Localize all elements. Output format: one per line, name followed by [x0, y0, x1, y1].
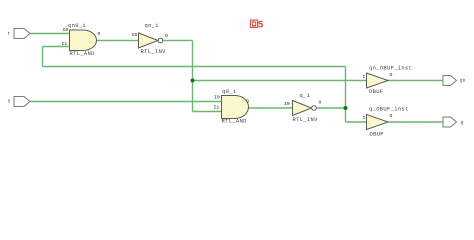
svg-text:O: O [390, 72, 393, 78]
svg-text:I0: I0 [214, 95, 220, 101]
svg-text:OBUF: OBUF [369, 88, 383, 95]
svg-text:O: O [390, 113, 393, 119]
svg-text:O: O [246, 99, 249, 105]
svg-text:I0: I0 [63, 27, 69, 33]
svg-text:I: I [363, 115, 366, 121]
svg-text:I1: I1 [214, 105, 220, 111]
svg-text:RTL_AND: RTL_AND [222, 118, 248, 125]
svg-text:I0: I0 [132, 32, 138, 38]
svg-text:r: r [8, 31, 11, 37]
svg-text:q_OBUF_inst: q_OBUF_inst [369, 106, 409, 113]
svg-text:qn_OBUF_inst: qn_OBUF_inst [369, 65, 412, 72]
svg-text:I: I [363, 74, 366, 80]
svg-text:s: s [8, 99, 11, 105]
svg-text:RTL_AND: RTL_AND [70, 50, 96, 57]
svg-text:q_i: q_i [300, 92, 311, 99]
svg-text:q0_i: q0_i [222, 88, 237, 95]
svg-text:qn0_i: qn0_i [68, 22, 86, 29]
svg-text:5: 5 [258, 21, 264, 32]
svg-text:O: O [319, 100, 322, 106]
svg-text:O: O [165, 33, 168, 39]
svg-text:RTL_INV: RTL_INV [141, 48, 167, 55]
svg-text:I0: I0 [284, 101, 290, 107]
svg-text:OBUF: OBUF [370, 131, 384, 138]
svg-text:O: O [98, 31, 101, 37]
svg-text:I1: I1 [62, 41, 68, 47]
svg-text:RTL_INV: RTL_INV [293, 116, 319, 123]
svg-text:qn: qn [460, 78, 466, 84]
svg-text:q: q [461, 120, 464, 126]
svg-text:qn_i: qn_i [145, 22, 160, 29]
